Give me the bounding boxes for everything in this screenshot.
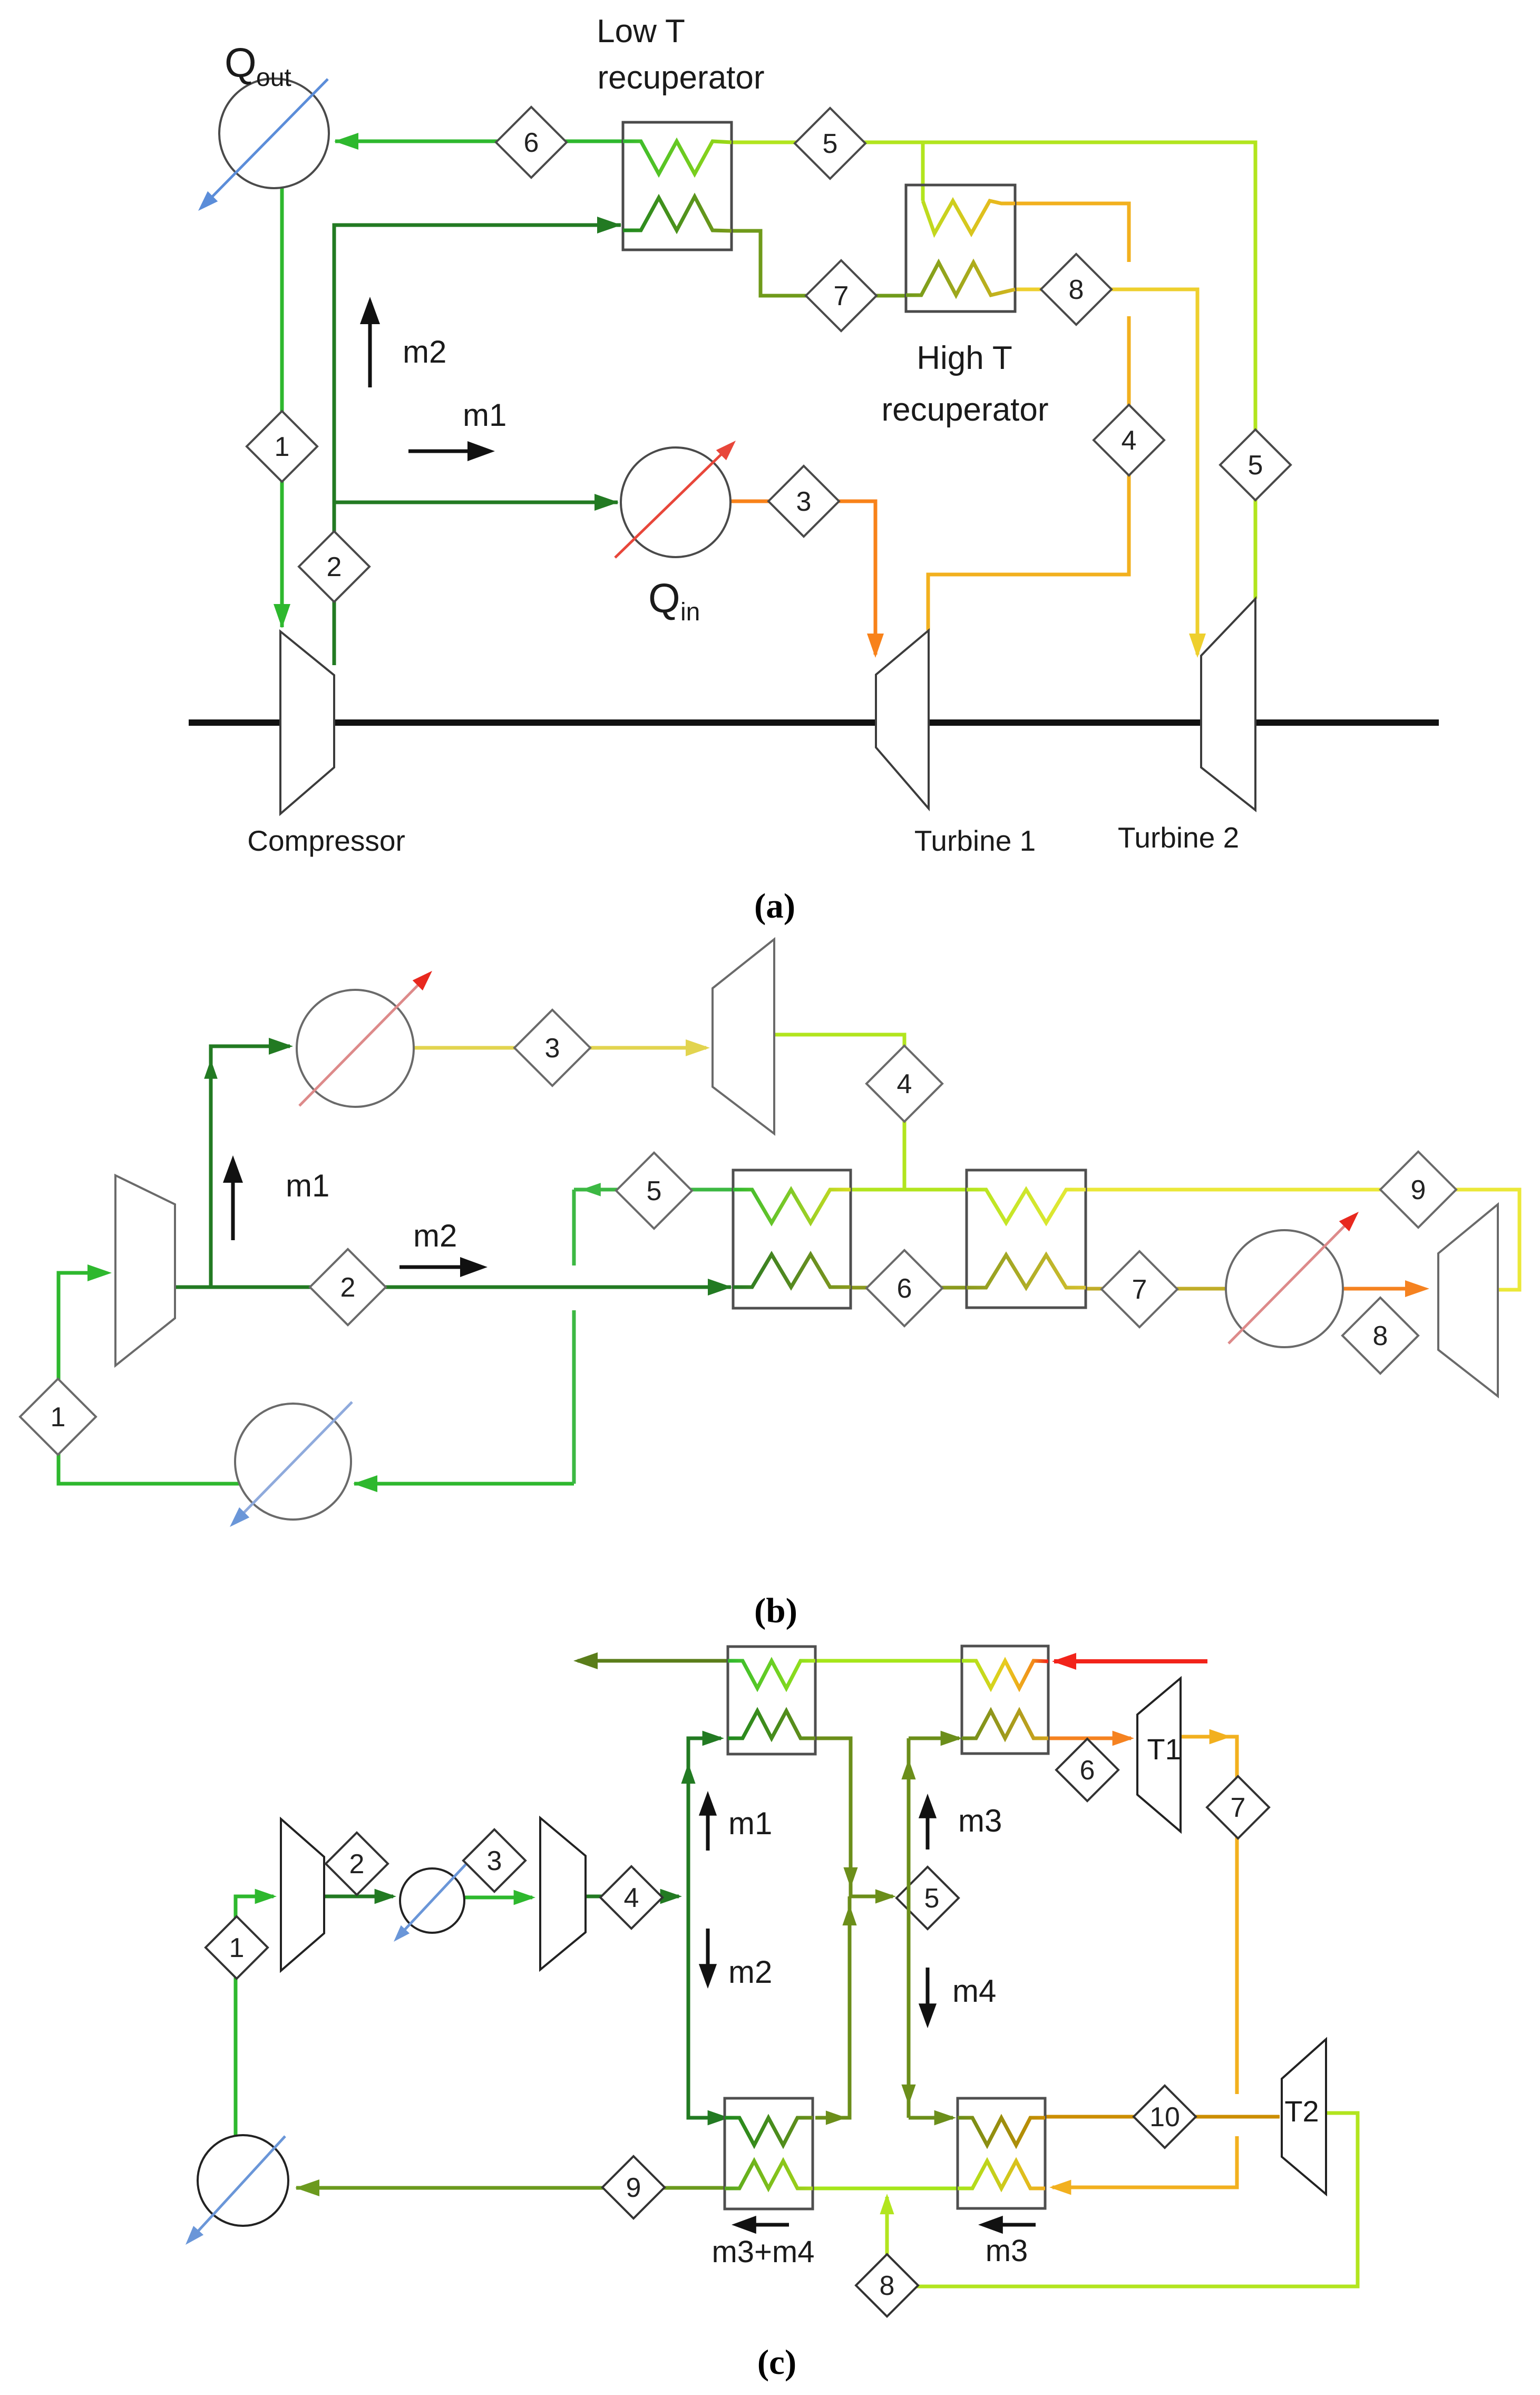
svg-text:(c): (c): [757, 2343, 796, 2382]
svg-text:3: 3: [545, 1033, 560, 1064]
svg-text:m1: m1: [728, 1806, 772, 1841]
svg-text:3: 3: [796, 486, 812, 517]
svg-text:8: 8: [1069, 275, 1084, 305]
svg-text:recuperator: recuperator: [597, 60, 764, 96]
svg-text:m4: m4: [952, 1973, 996, 2009]
svg-text:m1: m1: [286, 1168, 329, 1203]
svg-text:7: 7: [1231, 1793, 1246, 1823]
svg-text:9: 9: [626, 2173, 641, 2203]
svg-text:2: 2: [340, 1272, 356, 1303]
svg-text:6: 6: [897, 1273, 912, 1304]
svg-text:m3: m3: [986, 2234, 1028, 2268]
svg-text:in: in: [680, 598, 700, 626]
svg-text:1: 1: [51, 1402, 66, 1433]
svg-text:Low T: Low T: [597, 13, 685, 50]
svg-text:T2: T2: [1284, 2095, 1319, 2128]
svg-text:2: 2: [327, 552, 342, 582]
svg-text:8: 8: [1373, 1321, 1388, 1351]
svg-text:5: 5: [647, 1176, 662, 1206]
svg-text:m3: m3: [958, 1803, 1002, 1838]
svg-text:3: 3: [487, 1846, 502, 1876]
svg-text:4: 4: [624, 1883, 639, 1913]
svg-text:m2: m2: [728, 1954, 772, 1990]
svg-text:High T: High T: [917, 340, 1012, 376]
svg-text:6: 6: [1080, 1755, 1095, 1786]
svg-text:Turbine 1: Turbine 1: [914, 824, 1036, 857]
svg-text:7: 7: [1132, 1274, 1147, 1305]
svg-text:m2: m2: [413, 1218, 457, 1253]
svg-text:(b): (b): [754, 1591, 797, 1630]
svg-text:9: 9: [1411, 1175, 1426, 1205]
svg-text:T1: T1: [1147, 1732, 1181, 1766]
svg-text:Q: Q: [225, 40, 257, 86]
svg-text:m2: m2: [403, 334, 446, 369]
svg-text:2: 2: [349, 1849, 365, 1880]
svg-text:6: 6: [524, 128, 539, 158]
svg-text:10: 10: [1149, 2102, 1180, 2133]
svg-text:4: 4: [1122, 425, 1137, 456]
svg-text:4: 4: [897, 1069, 912, 1099]
svg-text:m3+m4: m3+m4: [711, 2235, 814, 2269]
svg-text:5: 5: [924, 1883, 940, 1914]
svg-text:Q: Q: [648, 575, 680, 621]
svg-text:5: 5: [1248, 450, 1263, 481]
svg-text:m1: m1: [463, 397, 506, 433]
svg-text:7: 7: [834, 281, 849, 311]
svg-text:1: 1: [229, 1933, 245, 1963]
svg-text:recuperator: recuperator: [881, 392, 1048, 428]
svg-text:1: 1: [275, 432, 290, 462]
svg-text:8: 8: [880, 2271, 895, 2301]
svg-text:out: out: [256, 64, 291, 92]
svg-text:5: 5: [823, 129, 838, 159]
svg-text:Compressor: Compressor: [247, 824, 405, 857]
svg-text:(a): (a): [754, 887, 795, 926]
svg-text:Turbine 2: Turbine 2: [1118, 821, 1239, 854]
